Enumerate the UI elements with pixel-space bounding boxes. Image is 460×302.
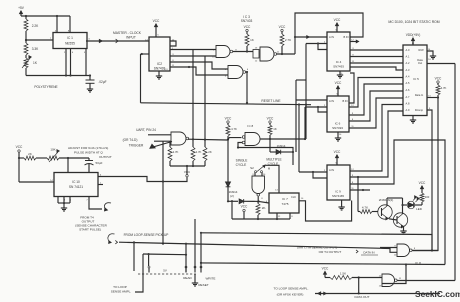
svg-text:7475: 7475: [282, 202, 289, 206]
wire ROM R/W to ground: [427, 51, 433, 54]
node write tee: [200, 262, 202, 264]
node pull 2k: [204, 139, 206, 141]
node U8a pullup: [269, 138, 271, 140]
svg-text:MASTER - CLOCK: MASTER - CLOCK: [113, 31, 142, 35]
power VCC IC4: [334, 18, 341, 32]
label ROM title: [388, 20, 439, 24]
ground ROM R/W: [430, 54, 436, 59]
svg-text:IC 9: IC 9: [335, 190, 341, 194]
label adjust pulse width: [68, 146, 112, 159]
label polystyrene: [34, 85, 57, 89]
wire IC2 R0 to gate: [170, 67, 228, 75]
label data in: [356, 250, 378, 255]
node G7 in1: [358, 276, 360, 278]
nand gate U8b: [252, 173, 265, 197]
node loop-switch: [133, 241, 135, 243]
svg-text:10K: 10K: [50, 148, 55, 152]
power VCC pull tie: [184, 170, 191, 177]
svg-text:CYCLE: CYCLE: [236, 163, 247, 167]
svg-text:A.4: A.4: [406, 75, 410, 79]
potentiometer R3 1K: [22, 55, 38, 68]
wire U8c out: [412, 250, 438, 252]
node pin2 bottom: [89, 74, 91, 76]
svg-text:LED: LED: [416, 207, 423, 211]
svg-text:ADJUST FOR 6mS (170-mS): ADJUST FOR 6mS (170-mS): [68, 146, 108, 150]
ground IC2: [156, 71, 162, 79]
wire data in column: [413, 98, 439, 251]
svg-text:PULSE WIDTH AT Q: PULSE WIDTH AT Q: [74, 151, 103, 155]
svg-text:VCC: VCC: [225, 117, 232, 121]
power VCC IC9: [334, 150, 341, 165]
wire G7 in2: [382, 265, 406, 284]
node U3c pullup: [281, 53, 283, 55]
svg-text:5V: 5V: [163, 269, 167, 273]
svg-text:IC 5: IC 5: [413, 77, 419, 81]
svg-text:A.5: A.5: [406, 81, 410, 85]
node gate pullup: [227, 138, 229, 140]
resistor gate pullup 4.7K: [226, 123, 237, 139]
svg-text:A.8: A.8: [406, 102, 410, 106]
wire IC9 QB to ROM A9: [350, 111, 403, 177]
node IC6 reset tie: [317, 106, 319, 108]
label 2N3643: [379, 198, 394, 202]
pin labels U8c: [394, 246, 416, 257]
svg-text:R/W: R/W: [418, 48, 424, 52]
diode D1 1N914: [226, 182, 231, 187]
wire U8b out: [258, 197, 270, 204]
node U3b wired-and: [246, 71, 248, 73]
power VCC pullup1: [244, 25, 251, 32]
wire IC4 QA to ROM A0: [350, 49, 403, 51]
svg-text:100: 100: [425, 195, 430, 199]
svg-text:SN74165: SN74165: [332, 194, 344, 198]
wire +5V rail: [21, 15, 70, 17]
svg-text:FROM LOOP-SENSE PICK-UP: FROM LOOP-SENSE PICK-UP: [124, 233, 169, 237]
wire IC9 QC loop: [350, 140, 445, 265]
svg-text:4.7K: 4.7K: [441, 86, 447, 90]
wire R2 junction to pin 7: [26, 39, 53, 41]
label uart pin 24: [123, 128, 157, 148]
label IC8 mid: [247, 124, 254, 128]
svg-text:SN7403: SN7403: [241, 19, 253, 23]
wire IC2 QB to gate: [170, 49, 216, 51]
node IC10 vcc res: [18, 157, 20, 159]
svg-text:POLYSTYRENE: POLYSTYRENE: [34, 85, 57, 89]
wire U3a output: [233, 51, 253, 53]
ground IC9: [338, 200, 344, 210]
node timing cap: [67, 157, 69, 159]
wire feedback 147: [238, 148, 293, 166]
label from loop sense pickup: [124, 233, 169, 237]
svg-text:2.7K: 2.7K: [196, 150, 202, 154]
pin labels U3c: [255, 48, 280, 63]
pin labels U3a: [212, 50, 237, 59]
switch S1 contacts: [134, 266, 202, 273]
svg-text:2K: 2K: [208, 150, 212, 154]
pin labels IC5: [412, 43, 432, 110]
power VCC IC7: [241, 205, 248, 220]
svg-text:Data In: Data In: [415, 93, 424, 97]
input hook T4: [104, 203, 111, 212]
ground IC10: [61, 206, 67, 211]
wire data in: [427, 97, 438, 99]
wire read line: [143, 253, 186, 256]
node reset-IC9 branch: [298, 103, 300, 105]
wire IC4 QC to ROM A2: [350, 62, 403, 64]
svg-text:SN7493: SN7493: [332, 126, 343, 130]
svg-text:B IN: B IN: [343, 35, 348, 39]
wire IC6 QC to ROM A6: [349, 91, 403, 121]
node U8a in2: [237, 146, 239, 148]
node pin6 bottom: [65, 74, 67, 76]
timer U1 NE555: [53, 33, 87, 49]
wire U8a in2: [238, 143, 242, 148]
svg-text:+5V: +5V: [18, 6, 25, 10]
svg-text:TRIGGER: TRIGGER: [129, 144, 144, 148]
wire IC2 reset to reset line: [141, 54, 150, 103]
wire IC7 clk out: [299, 201, 352, 222]
svg-text:NE555: NE555: [65, 42, 75, 46]
svg-text:OUTPUT: OUTPUT: [99, 155, 112, 159]
wire collectors: [387, 198, 407, 214]
wire pin8 to rail: [69, 16, 71, 33]
pin labels IC6: [324, 94, 355, 137]
wire data out: [427, 63, 455, 65]
node clockloop-A: [294, 36, 296, 38]
ground IC6: [335, 132, 341, 141]
counter U9 SN74165: [327, 165, 350, 200]
wire IC10 bottom pins: [58, 197, 70, 207]
svg-text:Out: Out: [418, 61, 422, 65]
wire Umid output column: [305, 44, 307, 140]
nand gate U8d: [382, 274, 397, 287]
svg-text:TO LOOP SENSE AMPL.: TO LOOP SENSE AMPL.: [274, 287, 309, 291]
svg-text:OR T4 OUTPUT: OR T4 OUTPUT: [319, 250, 342, 254]
label reset sw: [198, 283, 208, 287]
wire U11a in2: [154, 140, 171, 142]
label IC8: [415, 261, 421, 265]
wire IC4 A input: [295, 36, 327, 38]
wire IC6 QB to ROM A5: [349, 84, 403, 115]
svg-text:4.7K: 4.7K: [362, 206, 368, 210]
resistor pull 2.7K mid: [191, 50, 202, 167]
pin labels IC4: [324, 30, 355, 76]
svg-text:START PULSE): START PULSE): [79, 228, 101, 232]
svg-text:IC 8: IC 8: [415, 261, 421, 265]
label 1N914(2): [229, 190, 238, 198]
wire IC9 reset pins: [312, 171, 327, 178]
counter U2 SN7493: [149, 37, 170, 71]
node pull tie: [186, 165, 188, 167]
svg-text:UART, ITA SERIAL OUTPUT): UART, ITA SERIAL OUTPUT): [297, 246, 338, 250]
wire master clock: [86, 39, 149, 43]
svg-text:A.1: A.1: [406, 55, 410, 59]
svg-text:IC 10: IC 10: [72, 180, 80, 184]
label IC3 SN7403: [241, 15, 253, 23]
svg-text:2K.: 2K.: [262, 206, 267, 210]
wire pin6 down: [65, 49, 67, 76]
node reset drive: [246, 102, 248, 104]
transistor Q2: [393, 213, 407, 228]
svg-text:VCC: VCC: [435, 77, 442, 81]
capacitor C1 .02uF: [86, 76, 107, 88]
wire none: [0, 0, 1, 1]
wire trigger in: [150, 142, 172, 149]
wire pin5 down: [85, 49, 87, 76]
wire IC6 column A: [295, 80, 297, 152]
wire switch drop 1: [133, 242, 135, 267]
svg-text:(OR AFSK KEYER): (OR AFSK KEYER): [277, 293, 304, 297]
wire U8d out: [397, 64, 455, 281]
svg-text:A.0: A.0: [406, 48, 410, 52]
wire IC9 A input: [299, 105, 327, 173]
svg-text:VCC: VCC: [419, 181, 426, 185]
wire IC10 Q: [98, 166, 187, 182]
node IC4 reset tie: [317, 42, 319, 44]
label data out: [354, 295, 369, 299]
power VCC gate pullup: [225, 117, 232, 124]
svg-text:SeekIC.com: SeekIC.com: [415, 289, 460, 299]
svg-text:3.3K: 3.3K: [32, 47, 39, 51]
power VCC 1.5K: [322, 267, 329, 278]
wire loop sense line: [119, 242, 397, 252]
label single cycle: [236, 159, 248, 168]
resistor pullup2 2.7K: [280, 32, 291, 54]
nand gate U3c: [260, 47, 277, 61]
wire IC4 QA stub: [350, 40, 359, 42]
pin labels IC1: [50, 31, 91, 55]
svg-text:DATA OUT: DATA OUT: [354, 295, 369, 299]
node rail-pin8: [56, 15, 58, 17]
label to loop sense ampl 2: [274, 287, 309, 297]
wire S2 multiple to IC7: [266, 165, 280, 193]
label uart serial output: [297, 246, 342, 255]
svg-text:IC 7: IC 7: [282, 197, 288, 201]
wire clock loop to IC4: [295, 13, 363, 54]
switch S1 gang: [138, 273, 196, 275]
pin labels U3b: [225, 69, 249, 78]
resistor R8 100: [420, 193, 430, 202]
label to loop sense ampl: [111, 285, 132, 294]
wire IC4 QB to ROM A1: [350, 56, 403, 58]
nand gate U3b: [228, 66, 246, 79]
label master clock input: [113, 31, 142, 40]
nor gate U8a: [242, 133, 260, 146]
wire G7 in1: [352, 277, 382, 279]
wire IC2 QD to gate: [170, 62, 228, 69]
svg-text:1N914: 1N914: [277, 144, 286, 148]
label 5V: [163, 269, 167, 273]
node G7 feed: [405, 263, 407, 265]
svg-text:A.2: A.2: [406, 61, 410, 65]
svg-text:(OR T4-D): (OR T4-D): [123, 138, 138, 142]
ground IC4: [337, 71, 343, 78]
power +5V: [18, 6, 25, 16]
wire IC6 A input: [296, 99, 327, 101]
power VDD ROM: [406, 33, 421, 45]
svg-text:VCC: VCC: [267, 117, 274, 121]
power VCC IC10: [16, 145, 23, 152]
wire pin2 down: [69, 49, 71, 77]
label read: [183, 276, 192, 280]
svg-text:VCC: VCC: [279, 25, 286, 29]
svg-text:SENSE AMPL.: SENSE AMPL.: [111, 290, 132, 294]
counter U6 SN7493: [327, 96, 349, 132]
nand gate U8c: [397, 244, 412, 257]
wire reset line: [141, 103, 312, 105]
nand gate U11a: [171, 132, 189, 145]
potentiometer R5 10K: [47, 148, 89, 163]
wire Q1 emitter to Q2 base: [389, 219, 397, 220]
node reset-Umid: [305, 104, 307, 106]
wire data out drop: [358, 278, 360, 295]
wire IC9 QA to ROM A8: [350, 105, 403, 172]
svg-text:VCC: VCC: [241, 205, 248, 209]
resistor R4 2K: [19, 152, 47, 160]
svg-text:RESET LINE: RESET LINE: [261, 99, 281, 103]
switch S2: [250, 164, 271, 172]
pin labels IC10: [50, 175, 102, 202]
resistor R6 2K: [256, 201, 266, 219]
wire pin4 to rail: [56, 16, 58, 33]
ground ROM: [410, 116, 416, 124]
svg-text:A IN: A IN: [329, 168, 334, 172]
svg-text:A.3: A.3: [406, 68, 410, 72]
pin labels IC7: [266, 190, 304, 219]
svg-text:50µF: 50µF: [96, 161, 103, 165]
resistor R9 1.5K: [325, 272, 352, 280]
svg-text:IC 4: IC 4: [336, 60, 342, 64]
wire U11a output: [188, 138, 242, 140]
ground switch: [192, 274, 198, 286]
gate input block U3c: [253, 50, 259, 59]
pin labels IC2: [145, 35, 175, 72]
svg-text:SN 74121: SN 74121: [69, 185, 83, 189]
resistor pullup3 1K: [268, 123, 277, 139]
rom U5 MCD100: [403, 45, 427, 116]
svg-text:VDD(+5V): VDD(+5V): [406, 33, 421, 37]
svg-text:I C 8: I C 8: [247, 124, 254, 128]
svg-text:SN7493: SN7493: [333, 65, 344, 69]
node U3a pullup: [246, 50, 248, 52]
label reset line: [261, 99, 281, 103]
svg-text:WRITE: WRITE: [206, 277, 216, 281]
node serial join: [431, 249, 433, 251]
svg-text:1.5K: 1.5K: [340, 272, 346, 276]
resistor pullup1 1K: [245, 32, 254, 52]
wire switch contact drop5: [148, 253, 150, 266]
svg-text:2K: 2K: [28, 152, 32, 156]
wire pot to bottom rail: [26, 68, 90, 76]
one-shot U10 SN74121: [54, 173, 98, 197]
svg-text:2.2K: 2.2K: [32, 24, 39, 28]
ground C1: [87, 87, 93, 92]
svg-text:VCC: VCC: [335, 81, 342, 85]
svg-text:.02µF: .02µF: [98, 80, 106, 84]
svg-text:MC D100, 1024 BIT STATIC ROM: MC D100, 1024 BIT STATIC ROM: [388, 20, 439, 24]
transistor Q1: [378, 205, 392, 220]
node feedback diode: [292, 151, 294, 153]
wire Q column: [162, 141, 164, 245]
counter U4 SN7493: [327, 32, 350, 71]
svg-text:INPUT: INPUT: [126, 36, 136, 40]
resistor R1 2.2K: [24, 16, 39, 37]
svg-text:READ: READ: [183, 276, 192, 280]
wire diode row: [227, 199, 259, 203]
svg-text:2.7K: 2.7K: [285, 38, 291, 42]
label write: [206, 277, 216, 281]
wire write line: [201, 263, 445, 265]
label seekic: [415, 289, 460, 299]
svg-text:(2): (2): [230, 194, 234, 198]
wire VCC column IC10: [19, 152, 54, 182]
svg-text:VCC: VCC: [322, 267, 329, 271]
wire IC9 QD stub: [350, 189, 370, 191]
pin labels U8b: [252, 174, 266, 200]
wire IC2 QC to gate: [170, 55, 216, 57]
wire IC6 column B: [304, 107, 306, 139]
diode D2 1N914: [0, 0, 1, 1]
svg-text:A.7: A.7: [406, 95, 410, 99]
node data in pullup: [437, 96, 439, 98]
wire IC10 B input: [89, 197, 102, 210]
wire switch drop 3: [200, 233, 202, 268]
nand gate U3a: [216, 46, 233, 58]
svg-text:2.7K: 2.7K: [173, 150, 179, 154]
wire IC6 reset pins: [305, 107, 327, 112]
wire data out line: [315, 292, 440, 295]
ground Q2: [400, 227, 406, 234]
node IC9 QB branch: [357, 176, 359, 178]
svg-text:A IN: A IN: [329, 35, 334, 39]
svg-text:A.6: A.6: [406, 88, 410, 92]
svg-text:1K: 1K: [273, 127, 277, 131]
svg-text:Rcomp: Rcomp: [415, 108, 424, 112]
resistor data pullup 4.7K: [436, 83, 447, 97]
svg-text:VCC: VCC: [153, 19, 160, 23]
wire U11a in1: [148, 134, 171, 136]
node serial d1: [200, 232, 202, 234]
latch U7 7475: [269, 193, 299, 213]
wire IC4 QD to ROM A3: [350, 67, 403, 70]
svg-text:MULTIPLE: MULTIPLE: [266, 158, 281, 162]
wire IC4 reset pins: [306, 44, 327, 50]
svg-text:VCC: VCC: [244, 25, 251, 29]
resistor pull 2.7K left: [168, 142, 179, 167]
node column B join: [304, 138, 306, 140]
wire IC6 QD to ROM A7: [349, 98, 403, 128]
svg-text:RESET: RESET: [198, 283, 208, 287]
svg-text:UART, PIN 24: UART, PIN 24: [136, 128, 156, 132]
wire IC10 Qbar stub: [98, 184, 103, 186]
node pull 2.7k a: [192, 138, 194, 140]
wire switch drop 4: [194, 219, 196, 268]
power VCC IC6: [335, 81, 342, 96]
svg-text:IC2: IC2: [157, 62, 162, 66]
power VCC pullup2: [279, 25, 286, 32]
node IC2 reset: [141, 53, 143, 55]
svg-text:CLK: CLK: [291, 195, 296, 199]
svg-text:TO LOOP: TO LOOP: [113, 285, 127, 289]
svg-text:A.9: A.9: [406, 108, 410, 112]
power VCC data pullup: [435, 77, 442, 84]
wire base feed: [357, 177, 359, 212]
wire U3b output: [246, 72, 247, 103]
svg-text:VCC: VCC: [334, 18, 341, 22]
wire timing pin: [67, 158, 69, 173]
svg-text:2N3643(2): 2N3643(2): [379, 198, 394, 202]
svg-text:4.7K: 4.7K: [231, 127, 237, 131]
